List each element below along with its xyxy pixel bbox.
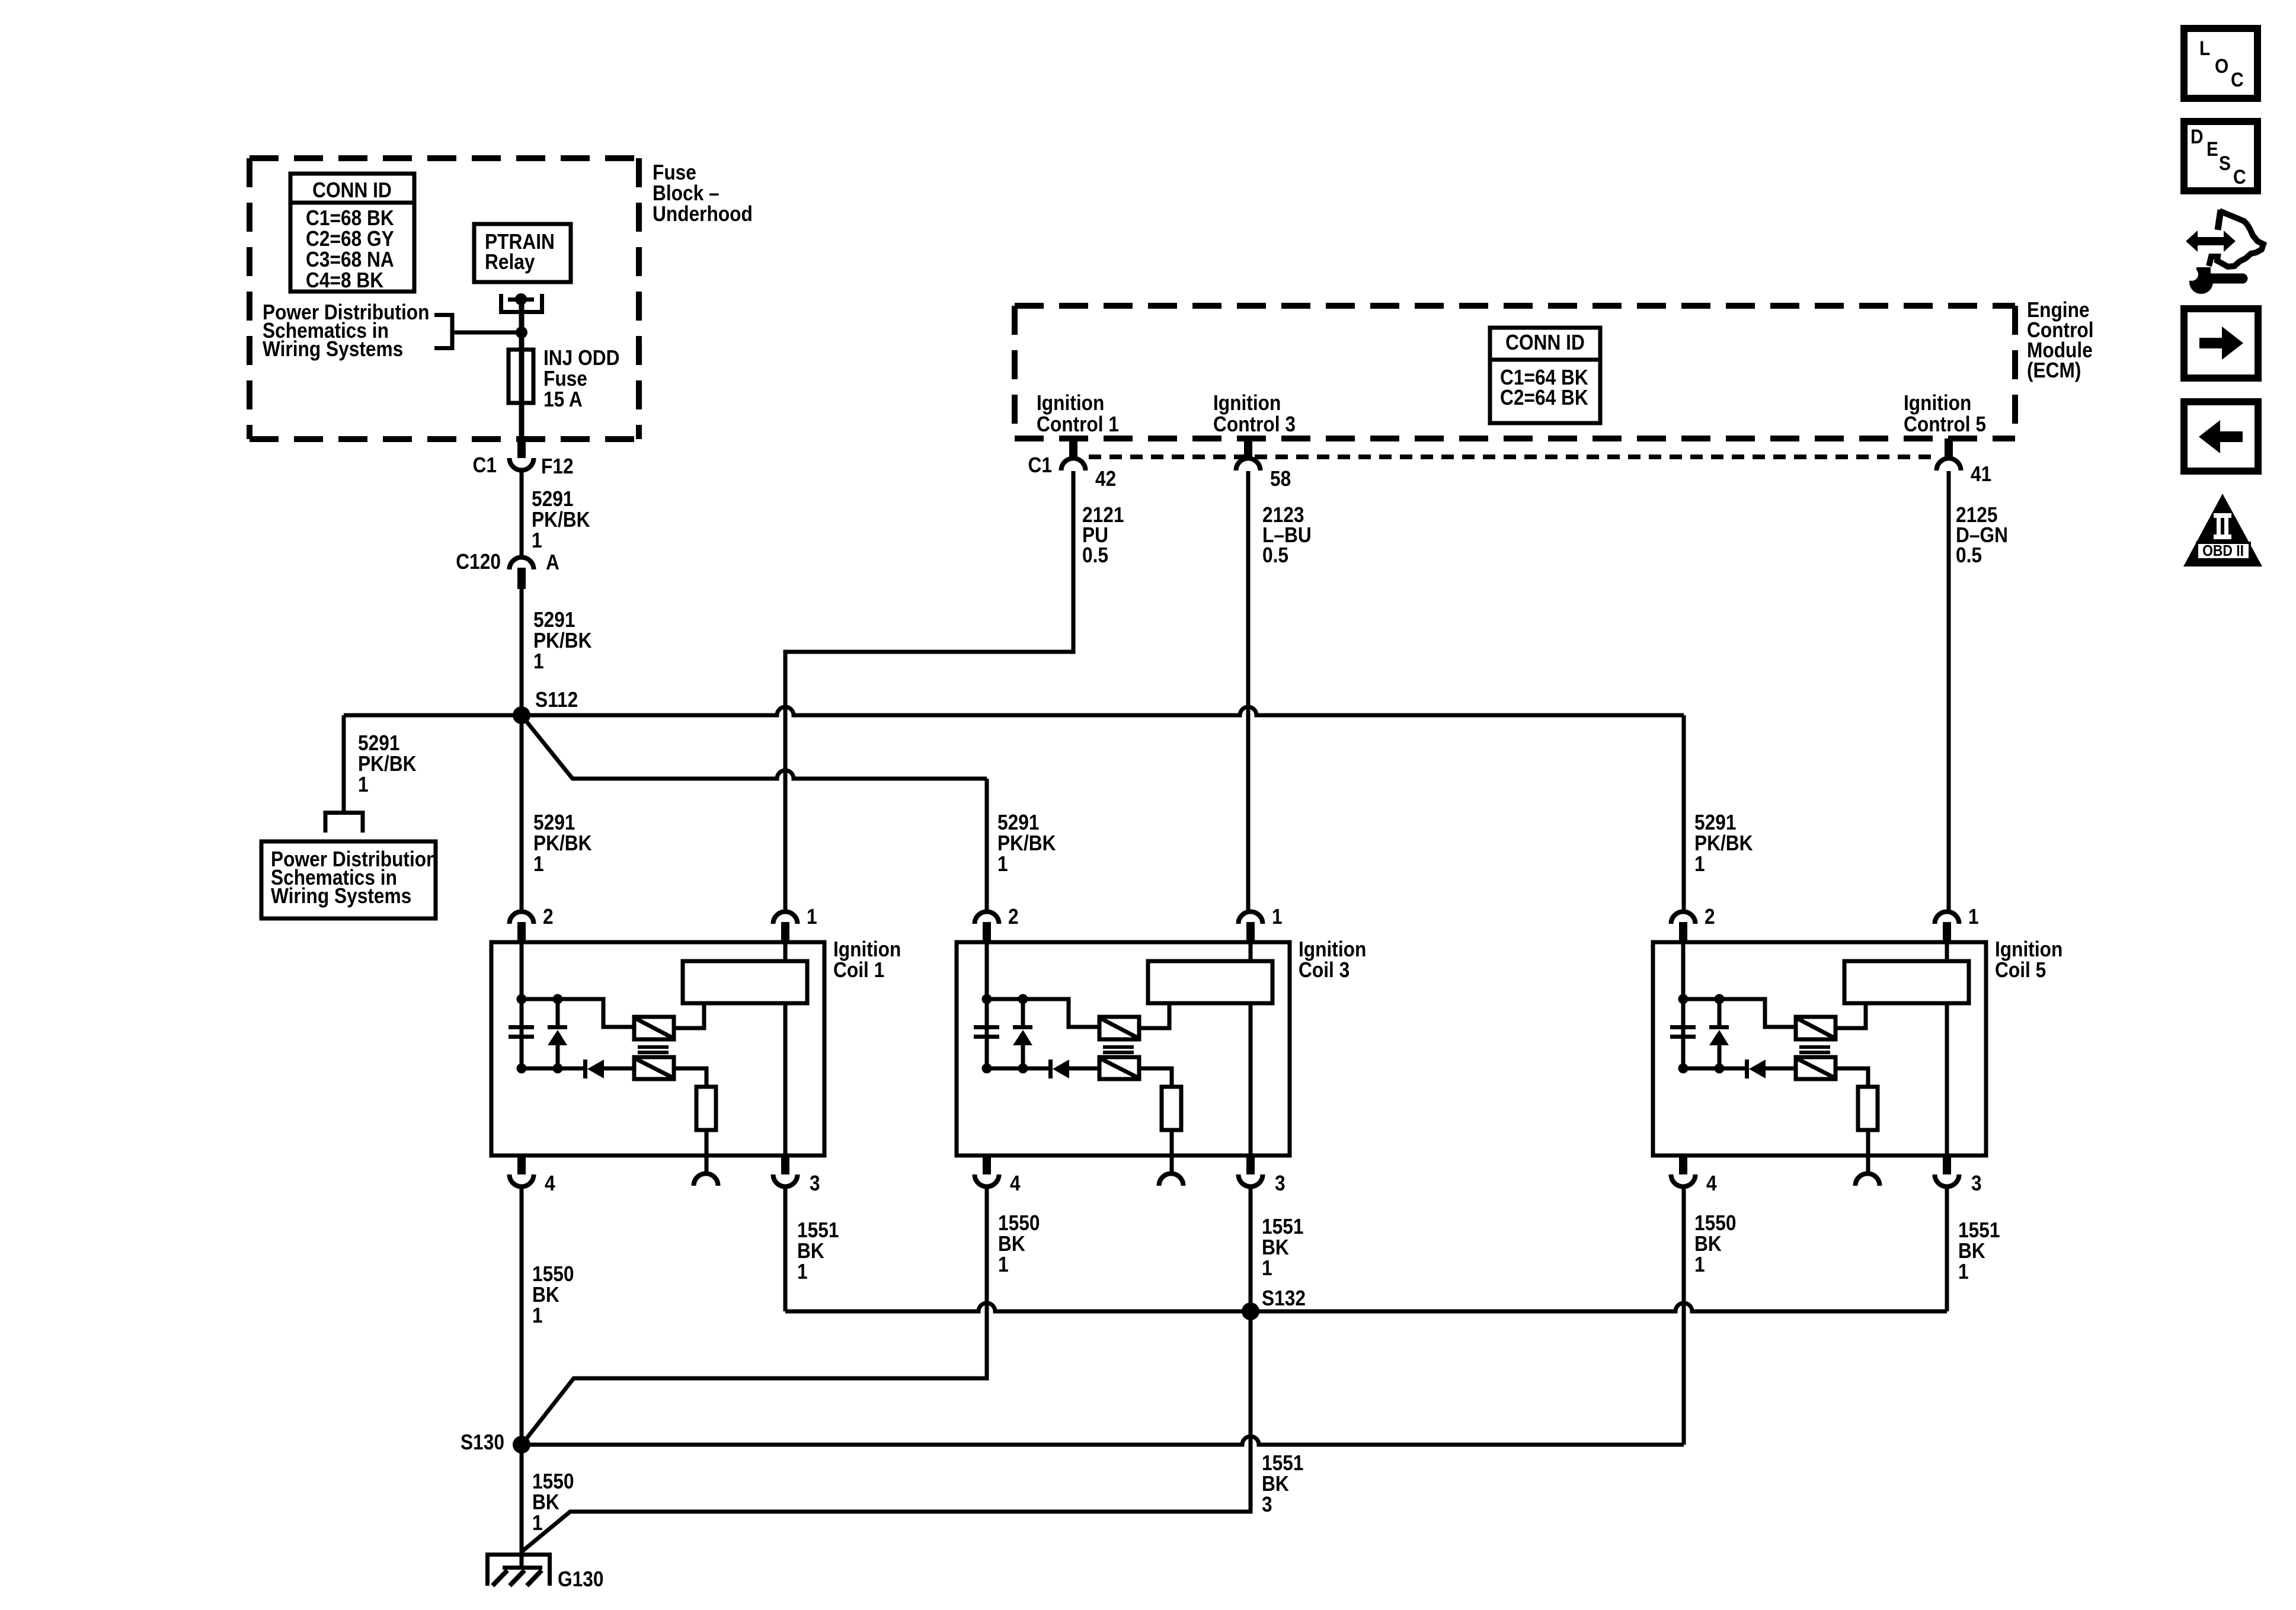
coil 3 internal supply wires <box>982 944 1100 1074</box>
resistor (coil 5) <box>1858 1087 1878 1156</box>
fuse INJ ODD 15 A <box>509 346 619 411</box>
ECM pin 41 ignition control 5 <box>1904 391 1991 486</box>
svg-text:2: 2 <box>1705 905 1715 929</box>
svg-text:CONN ID: CONN ID <box>312 178 392 202</box>
svg-text:1: 1 <box>997 852 1008 876</box>
ECM pin 58 ignition control 3 <box>1213 391 1296 491</box>
svg-text:C1: C1 <box>1028 453 1052 477</box>
wire: S112 to coil 5 pin 2 (5291) <box>522 707 1684 911</box>
svg-text:58: 58 <box>1270 467 1291 491</box>
svg-text:G130: G130 <box>558 1567 603 1591</box>
wire 2125 D-GN 0.5 (pin 41 to coil 5 pin 1) <box>1949 471 2008 911</box>
svg-text:1: 1 <box>807 905 817 929</box>
svg-text:2: 2 <box>1008 905 1019 929</box>
svg-text:F12: F12 <box>541 454 574 478</box>
svg-text:C1: C1 <box>473 453 497 477</box>
svg-text:1: 1 <box>1694 1253 1705 1276</box>
svg-text:Coil 1: Coil 1 <box>833 958 884 982</box>
svg-text:Control 5: Control 5 <box>1904 412 1986 436</box>
svg-text:1: 1 <box>1262 1256 1272 1280</box>
wire: S112 to coil 3 pin 2 (5291) <box>523 718 987 911</box>
ignition coil 1 label <box>833 937 901 982</box>
ECM connector line (dotted) <box>1089 454 1933 459</box>
zener diode (coil 1) <box>548 999 567 1068</box>
wire: power distribution tap <box>454 331 522 335</box>
secondary coil block (coil 5) <box>1844 944 1969 1156</box>
capacitor (coil 3) <box>974 1025 999 1039</box>
wire 5291 PK/BK 1 (F12 to C120) <box>522 470 590 556</box>
icon OBD II triangle <box>2183 494 2262 566</box>
wire 1550 BK 1 (coil 1 pin 4 to S130) <box>522 1188 574 1445</box>
svg-text:Wiring Systems: Wiring Systems <box>271 884 411 908</box>
coil 3 pin 4 connector <box>975 1154 1021 1195</box>
transformer core (coil 3) <box>1103 1045 1134 1054</box>
transformer core (coil 1) <box>638 1045 669 1054</box>
coil 5 pin 2 connector <box>1671 905 1715 944</box>
coil 5 pin 4 connector <box>1671 1154 1717 1195</box>
svg-text:A: A <box>546 550 559 574</box>
spark output connector (coil 1) <box>693 1156 718 1186</box>
svg-text:C2=64 BK: C2=64 BK <box>1500 386 1588 409</box>
fuse block underhood dashed box <box>250 158 639 439</box>
wire: S112 branch to power distribution off-page <box>344 715 522 812</box>
svg-text:Control 3: Control 3 <box>1213 412 1296 436</box>
transformer core (coil 5) <box>1799 1045 1830 1054</box>
coil 3 pin 3 connector <box>1239 1154 1285 1195</box>
capacitor (coil 1) <box>509 1025 534 1039</box>
node: power distribution tap junction <box>516 327 527 338</box>
svg-text:1: 1 <box>533 852 544 876</box>
svg-text:3: 3 <box>810 1172 820 1195</box>
svg-text:Control 1: Control 1 <box>1037 412 1119 436</box>
wire 2123 L-BU 0.5 (pin 58 to coil 3 pin 1) <box>1248 471 1312 911</box>
ground G130 <box>485 1554 603 1591</box>
svg-text:15 A: 15 A <box>543 388 583 411</box>
svg-text:E: E <box>2207 137 2218 160</box>
diode (coil 5) <box>1745 1060 1796 1078</box>
coil 1 internal supply wires <box>517 944 635 1074</box>
svg-text:1: 1 <box>1968 905 1979 929</box>
svg-text:C: C <box>2233 165 2246 188</box>
wire 2121 PU 0.5 (pin 42 to coil 1 pin 1) <box>785 471 1124 911</box>
svg-text:Ignition: Ignition <box>1213 391 1281 415</box>
CONN ID table (fuse block) <box>290 174 414 292</box>
power distribution schematics text <box>263 300 429 361</box>
coil 1 pin 1 connector <box>773 905 817 944</box>
svg-text:D: D <box>2191 125 2204 148</box>
winding interconnect wires (coil 5) <box>1835 1003 1868 1087</box>
coil 1 pin 3 connector <box>773 1154 820 1195</box>
svg-text:Ignition: Ignition <box>1037 391 1104 415</box>
winding interconnect wires (coil 3) <box>1139 1003 1172 1087</box>
secondary coil block (coil 3) <box>1148 944 1272 1156</box>
icon arrow left <box>2184 402 2258 471</box>
svg-text:0.5: 0.5 <box>1082 543 1108 567</box>
ECM CONN ID table <box>1490 328 1600 423</box>
svg-text:Wiring Systems: Wiring Systems <box>263 337 403 361</box>
svg-text:S112: S112 <box>535 688 578 712</box>
svg-text:4: 4 <box>545 1172 555 1195</box>
coil 3 pin 2 connector <box>975 905 1019 944</box>
wire: S112 down to coil 1 pin 2 (5291) <box>522 715 592 911</box>
wire 1551 BK 1 (coil 1 pin 3 to S132) <box>785 1188 1947 1311</box>
resistor (coil 1) <box>696 1087 716 1156</box>
svg-text:S130: S130 <box>461 1430 504 1454</box>
spark output connector (coil 3) <box>1159 1156 1184 1186</box>
primary winding lower (coil 5) <box>1796 1057 1835 1079</box>
zener diode (coil 3) <box>1013 999 1032 1068</box>
coil 5 pin 1 connector <box>1935 905 1979 944</box>
icon DESC <box>2184 121 2257 191</box>
primary winding upper (coil 3) <box>1099 1017 1139 1039</box>
svg-text:C120: C120 <box>456 550 501 574</box>
engine control module ECM dashed box <box>1015 306 2015 438</box>
svg-text:Coil 5: Coil 5 <box>1995 958 2046 982</box>
spark output connector (coil 5) <box>1856 1156 1880 1186</box>
power distribution reference box <box>261 841 437 918</box>
fuse block label <box>653 161 753 226</box>
off-page bracket above power distribution box <box>325 813 363 833</box>
svg-text:Ignition: Ignition <box>1904 391 1971 415</box>
svg-text:1: 1 <box>1958 1260 1969 1283</box>
primary winding lower (coil 3) <box>1099 1057 1139 1079</box>
primary winding upper (coil 5) <box>1796 1017 1835 1039</box>
svg-text:1: 1 <box>1694 852 1705 876</box>
svg-text:CONN ID: CONN ID <box>1505 331 1585 354</box>
splice S112 <box>513 688 578 724</box>
wire 1551 BK 3 (S132 to ground) <box>522 1311 1303 1551</box>
svg-text:0.5: 0.5 <box>1956 543 1982 567</box>
relay contact bracket <box>501 294 542 312</box>
wire 1551 BK 1 (coil 3 pin 3 to S132) <box>1251 1188 1303 1311</box>
svg-text:3: 3 <box>1275 1172 1285 1195</box>
splice S132 <box>1242 1286 1306 1320</box>
svg-text:1: 1 <box>1272 905 1283 929</box>
svg-text:Coil 3: Coil 3 <box>1299 958 1350 982</box>
svg-text:1: 1 <box>532 1304 543 1327</box>
svg-text:1: 1 <box>532 1511 543 1535</box>
wire 1551 BK 1 (coil 5 pin 3 to S132 line) <box>1947 1188 2000 1311</box>
svg-text:L: L <box>2199 37 2210 59</box>
resistor (coil 3) <box>1162 1087 1181 1156</box>
primary winding lower (coil 1) <box>634 1057 674 1079</box>
svg-text:1: 1 <box>532 529 542 552</box>
svg-text:42: 42 <box>1095 467 1116 491</box>
svg-text:C4=8 BK: C4=8 BK <box>306 268 384 292</box>
svg-text:4: 4 <box>1010 1172 1021 1195</box>
svg-text:S132: S132 <box>1262 1286 1306 1310</box>
coil 1 pin 4 connector <box>510 1154 555 1195</box>
ignition coil 5 label <box>1995 937 2062 982</box>
svg-text:(ECM): (ECM) <box>2027 359 2081 382</box>
ignition coil 3 label <box>1299 937 1366 982</box>
wire 1550 BK 1 (coil 5 pin 4 to S130 line) <box>1684 1188 1736 1445</box>
svg-text:1: 1 <box>797 1260 808 1283</box>
svg-text:S: S <box>2219 152 2231 174</box>
icon LOC <box>2184 28 2257 98</box>
relay PTRAIN box <box>474 224 571 282</box>
wire 5291 PK/BK 1 (C120 to S112) <box>522 589 592 713</box>
ignition coil 5 box <box>1653 942 1986 1156</box>
node: relay terminal junction <box>515 293 527 305</box>
svg-text:O: O <box>2215 55 2228 77</box>
svg-text:0.5: 0.5 <box>1262 543 1288 567</box>
connector C120 pin A <box>456 550 559 589</box>
icon arrow right <box>2184 309 2258 378</box>
capacitor (coil 5) <box>1670 1025 1696 1039</box>
wire: relay to fuse <box>519 299 525 439</box>
svg-text:3: 3 <box>1971 1172 1982 1195</box>
wire 1550 BK 1 (S130 to ground) <box>522 1445 574 1568</box>
ignition coil 1 box <box>491 942 824 1156</box>
primary winding upper (coil 1) <box>634 1017 674 1039</box>
coil 1 pin 2 connector <box>510 905 554 944</box>
svg-text:2: 2 <box>543 905 554 929</box>
ignition coil 3 box <box>957 942 1290 1156</box>
coil 5 pin 3 connector <box>1935 1154 1982 1195</box>
svg-text:1: 1 <box>998 1253 1009 1276</box>
zener diode (coil 5) <box>1709 999 1729 1068</box>
ECM pin 42 ignition control 1 <box>1028 391 1119 491</box>
wire 1550 BK 1 (coil 3 pin 4 to S130) <box>522 1188 1040 1444</box>
svg-text:Underhood: Underhood <box>653 202 753 226</box>
svg-text:41: 41 <box>1971 462 1991 486</box>
svg-text:C: C <box>2231 68 2244 91</box>
winding interconnect wires (coil 1) <box>674 1003 706 1087</box>
splice S130 <box>461 1430 530 1454</box>
wire: S130 bus to coil 5 pin 4 <box>522 1436 1684 1445</box>
diode (coil 3) <box>1048 1060 1099 1078</box>
svg-text:4: 4 <box>1706 1172 1717 1195</box>
ECM label <box>2027 298 2094 382</box>
off-page bracket (power distribution schematics) <box>434 313 452 350</box>
coil 5 internal supply wires <box>1678 944 1796 1074</box>
icon vehicle with wrench (diagnostic) <box>2185 210 2263 294</box>
svg-text:3: 3 <box>1262 1493 1272 1516</box>
coil 3 pin 1 connector <box>1239 905 1283 944</box>
svg-text:Relay: Relay <box>485 250 535 274</box>
svg-text:1: 1 <box>533 649 544 673</box>
svg-text:OBD II: OBD II <box>2202 543 2244 560</box>
diode (coil 1) <box>583 1060 634 1078</box>
secondary coil block (coil 1) <box>683 944 807 1156</box>
svg-text:1: 1 <box>358 773 369 796</box>
connector C1 pin F12 <box>473 439 574 478</box>
